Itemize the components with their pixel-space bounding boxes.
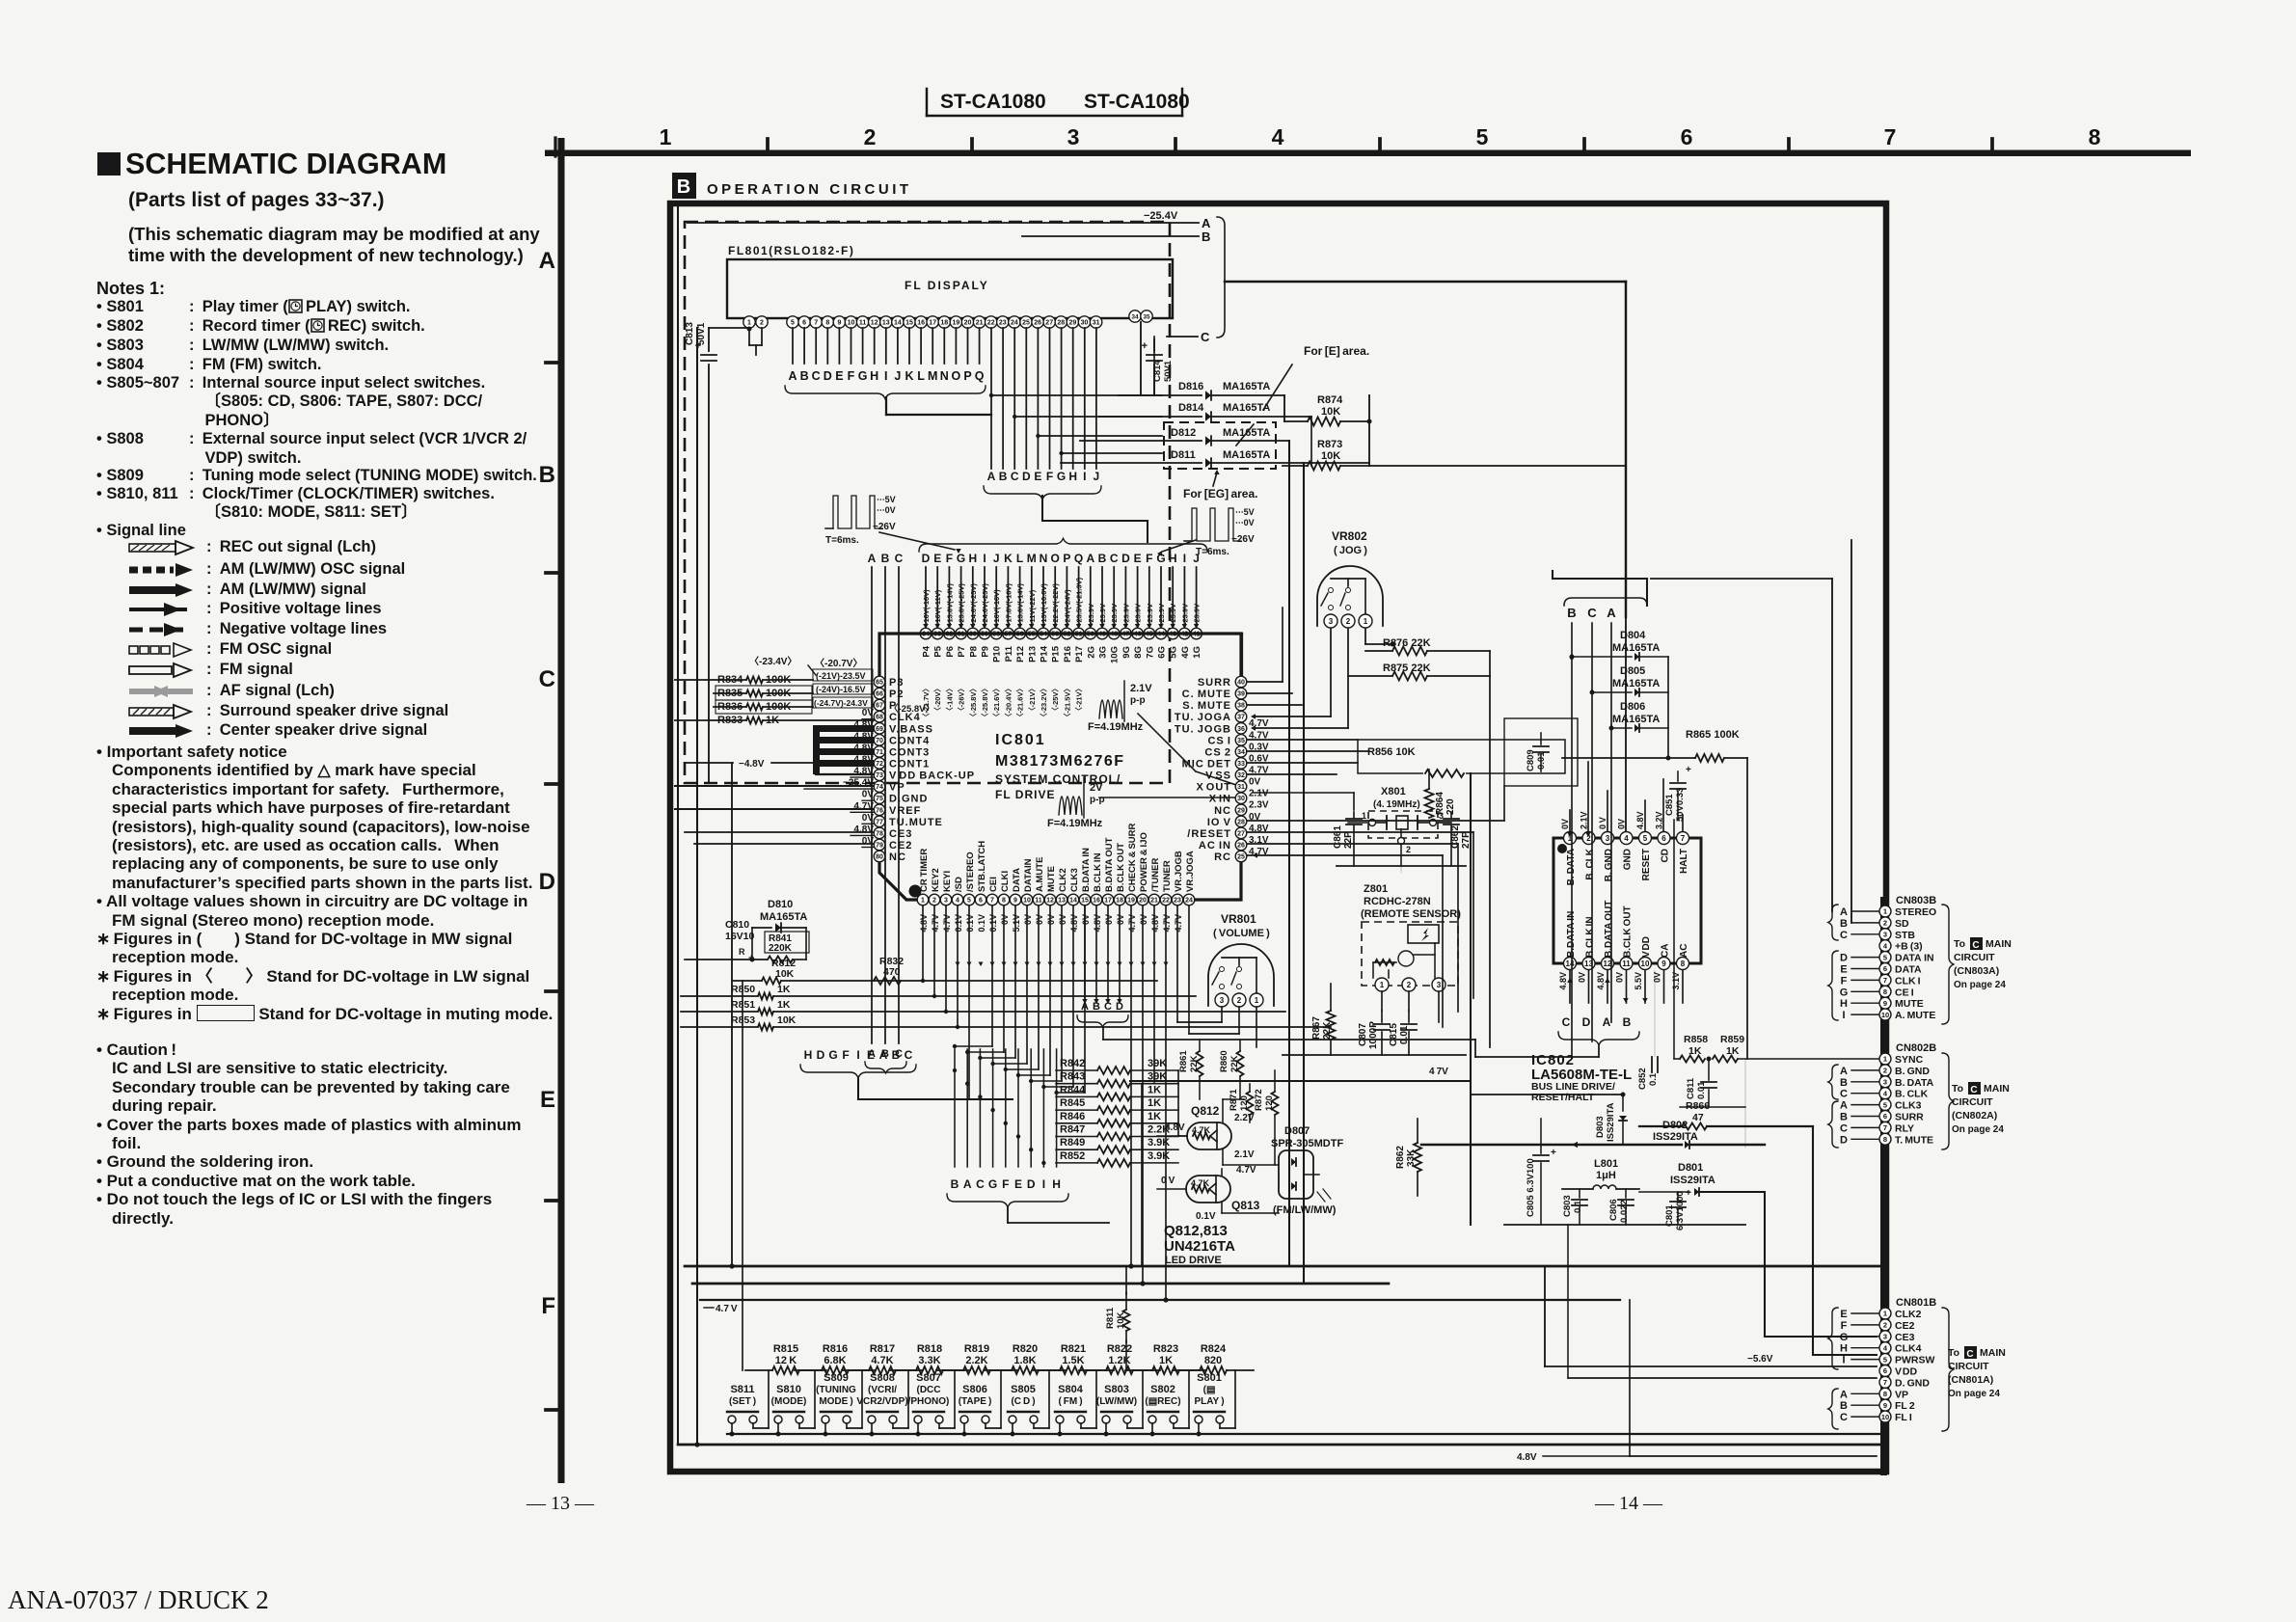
svg-text:39: 39 xyxy=(1237,691,1245,698)
svg-text:C805 6.3V100: C805 6.3V100 xyxy=(1526,1158,1536,1217)
svg-text:H: H xyxy=(968,552,977,565)
svg-text:13: 13 xyxy=(882,320,890,327)
svg-text:1: 1 xyxy=(1364,617,1368,626)
svg-text:HALT: HALT xyxy=(1679,849,1689,874)
waveform timing diagram right (5V/0V/-26V T=6ms) xyxy=(1157,507,1255,557)
svg-text:B.DATA OUT: B.DATA OUT xyxy=(1604,901,1614,958)
letters C D A B under IC802 xyxy=(1475,1015,1639,1057)
svg-text:1K: 1K xyxy=(1148,1097,1161,1109)
svg-text:-13.6V(-14V): -13.6V(-14V) xyxy=(945,583,954,625)
svg-text:14: 14 xyxy=(894,320,902,327)
svg-text:-23.9V: -23.9V xyxy=(1146,604,1154,625)
svg-text:CLK3: CLK3 xyxy=(1069,868,1080,892)
svg-text:6G: 6G xyxy=(1157,646,1168,659)
svg-text:8: 8 xyxy=(825,320,829,327)
svg-text:C. MUTE: C. MUTE xyxy=(1182,689,1231,700)
svg-text:MA165TA: MA165TA xyxy=(1223,449,1270,461)
svg-text:A: A xyxy=(1840,906,1848,918)
transistor Q812 with 4.7K base resistor xyxy=(1157,1099,1279,1165)
svg-text:J: J xyxy=(1094,470,1100,483)
svg-text:P11: P11 xyxy=(1004,645,1014,662)
svg-text:3: 3 xyxy=(1883,931,1887,939)
svg-text:22K: 22K xyxy=(1229,1055,1240,1072)
svg-text:CE3: CE3 xyxy=(1895,1332,1915,1343)
svg-text:3: 3 xyxy=(1606,834,1610,843)
IC801 right pin wires to right-side bus xyxy=(1247,608,1504,1027)
svg-text:47: 47 xyxy=(1692,1112,1704,1123)
svg-text:D: D xyxy=(1027,1177,1036,1191)
svg-text:-24V(-24V): -24V(-24V) xyxy=(1063,589,1071,625)
inductor L801 1uH xyxy=(1562,1158,1639,1189)
svg-text:C: C xyxy=(1840,1122,1848,1134)
svg-text:1: 1 xyxy=(747,320,751,327)
svg-text:⋅⋅⋅5V: ⋅⋅⋅5V xyxy=(1235,507,1255,517)
dashed box for [EG] area diodes xyxy=(1164,422,1276,469)
legend row surr xyxy=(125,702,448,720)
svg-text:22K: 22K xyxy=(1322,1021,1333,1040)
svg-text:B: B xyxy=(1623,1015,1632,1029)
svg-text:25: 25 xyxy=(1237,854,1245,861)
svg-text:R821: R821 xyxy=(1061,1343,1086,1355)
svg-text:M: M xyxy=(928,369,937,383)
svg-text:6.8K: 6.8K xyxy=(824,1355,846,1366)
svg-text:1K: 1K xyxy=(1159,1355,1173,1366)
svg-text:4.8V: 4.8V xyxy=(1558,972,1568,990)
svg-text:CONT4: CONT4 xyxy=(889,735,930,746)
svg-text:1: 1 xyxy=(921,898,925,905)
svg-text:CLK4: CLK4 xyxy=(1895,1343,1922,1355)
svg-text:0.1: 0.1 xyxy=(1648,1072,1659,1086)
svg-text:C807: C807 xyxy=(1358,1023,1368,1046)
svg-text:R844: R844 xyxy=(1060,1084,1086,1095)
svg-text:G: G xyxy=(858,369,868,383)
svg-text:UN4216TA: UN4216TA xyxy=(1164,1238,1235,1255)
svg-text:1: 1 xyxy=(1883,907,1887,916)
svg-text:B: B xyxy=(1567,606,1576,620)
svg-text:0.1: 0.1 xyxy=(1573,1200,1583,1213)
svg-text:11: 11 xyxy=(859,320,867,327)
svg-text:R864: R864 xyxy=(1435,792,1445,815)
svg-text:(MODE): (MODE) xyxy=(771,1396,807,1407)
capacitor C801 6.3V1000 xyxy=(1664,1188,1691,1230)
svg-text:0.022: 0.022 xyxy=(1619,1200,1630,1223)
capacitor C852 0.1 xyxy=(1637,970,1659,1090)
resistor R862 33K (vertical) xyxy=(1395,1119,1421,1196)
svg-text:RESET/HALT: RESET/HALT xyxy=(1531,1092,1595,1103)
svg-text:29: 29 xyxy=(1069,320,1077,327)
svg-text:D: D xyxy=(539,869,555,895)
svg-text:C: C xyxy=(905,1048,913,1062)
svg-text:D802: D802 xyxy=(1662,1120,1688,1131)
svg-text:〈-21V〉: 〈-21V〉 xyxy=(1027,685,1037,715)
svg-text:B. GND: B. GND xyxy=(1895,1066,1930,1077)
svg-text:IC801: IC801 xyxy=(995,732,1046,748)
svg-text:CONT1: CONT1 xyxy=(889,759,930,770)
legend row cen xyxy=(125,721,427,740)
top ruler bar with grid numbers 1-8 xyxy=(545,124,2191,156)
svg-text:3G: 3G xyxy=(1098,646,1109,659)
svg-text:( FM ): ( FM ) xyxy=(1058,1396,1082,1407)
svg-text:CIRCUIT: CIRCUIT xyxy=(1952,1096,1993,1108)
svg-text:7: 7 xyxy=(1883,1123,1887,1132)
svg-text:E: E xyxy=(1840,1309,1847,1320)
svg-text:C803: C803 xyxy=(1562,1195,1573,1217)
svg-text:1K: 1K xyxy=(1148,1084,1161,1095)
svg-text:31: 31 xyxy=(1093,320,1100,327)
svg-text:R845: R845 xyxy=(1060,1097,1085,1109)
svg-text:+B (3): +B (3) xyxy=(1895,941,1923,953)
svg-text:2V: 2V xyxy=(1090,782,1103,794)
legend row neg xyxy=(125,620,387,638)
svg-text:1K: 1K xyxy=(777,999,791,1011)
svg-text:C813: C813 xyxy=(685,322,695,345)
svg-text:22P: 22P xyxy=(1343,831,1354,849)
connector CN803B xyxy=(1879,895,1936,1021)
svg-text:C862: C862 xyxy=(1450,825,1461,849)
dashed boundary of FL display sub-circuit xyxy=(685,222,1170,783)
svg-text:77: 77 xyxy=(876,819,883,825)
svg-text:R872: R872 xyxy=(1254,1089,1264,1111)
svg-text:H: H xyxy=(1068,470,1077,483)
svg-text:S804: S804 xyxy=(1058,1384,1084,1395)
svg-text:MAIN: MAIN xyxy=(1980,1347,2006,1359)
svg-text:(TUNING: (TUNING xyxy=(816,1385,856,1395)
svg-text:TU.MUTE: TU.MUTE xyxy=(889,817,943,828)
svg-text:-24.6V(-23V): -24.6V(-23V) xyxy=(981,583,989,625)
svg-text:R874: R874 xyxy=(1317,394,1343,406)
svg-text:0V: 0V xyxy=(862,813,875,824)
oscillator waveform symbol 2.1V p-p F=4.19MHz xyxy=(1088,681,1246,790)
svg-text:DATA: DATA xyxy=(1895,964,1922,976)
svg-text:D816: D816 xyxy=(1178,381,1203,392)
svg-text:For [E] area.: For [E] area. xyxy=(1304,344,1369,358)
R811 joins xyxy=(1125,1266,1127,1370)
svg-text:M38173M6276F: M38173M6276F xyxy=(995,753,1125,770)
svg-text:2: 2 xyxy=(1883,919,1887,928)
svg-text:B.CLK IN: B.CLK IN xyxy=(1093,852,1103,892)
svg-text:T. MUTE: T. MUTE xyxy=(1895,1134,1933,1146)
svg-text:3: 3 xyxy=(1329,617,1334,626)
segment bus letter row D-Q A-J above IC801 xyxy=(919,538,1207,565)
svg-text:4.8V: 4.8V xyxy=(919,914,929,933)
svg-text:4.8V: 4.8V xyxy=(853,825,874,835)
svg-text:B: B xyxy=(1840,918,1848,930)
svg-text:CHECK & SURR: CHECK & SURR xyxy=(1127,823,1138,892)
svg-text:(-24V)-16.5V: (-24V)-16.5V xyxy=(816,685,866,694)
svg-text:0.1V: 0.1V xyxy=(965,914,975,933)
svg-text:On page 24: On page 24 xyxy=(1954,980,2006,990)
svg-text:E: E xyxy=(1014,1177,1022,1191)
svg-text:E: E xyxy=(1840,964,1847,976)
svg-text:R875 22K: R875 22K xyxy=(1383,662,1431,674)
resistor R856 10K xyxy=(1358,740,1565,778)
svg-text:B: B xyxy=(1840,1400,1848,1412)
svg-text:G: G xyxy=(957,552,965,565)
svg-text:28: 28 xyxy=(1237,819,1245,825)
svg-text:D: D xyxy=(1840,953,1848,964)
svg-text:NC: NC xyxy=(1214,805,1231,817)
bottom bus wires xyxy=(678,1266,1880,1445)
svg-text:26: 26 xyxy=(1034,320,1041,327)
svg-text:〈-14V〉: 〈-14V〉 xyxy=(944,685,954,715)
svg-text:2: 2 xyxy=(1407,981,1412,989)
svg-text:C852: C852 xyxy=(1637,1068,1648,1090)
svg-text:3: 3 xyxy=(1883,1333,1887,1341)
svg-text:C: C xyxy=(812,369,821,383)
svg-text:CN803B: CN803B xyxy=(1896,895,1936,906)
svg-text:33K: 33K xyxy=(1406,1149,1417,1167)
diode D811 MA165TA xyxy=(1061,449,1369,468)
svg-text:B: B xyxy=(1202,230,1210,244)
svg-text:CE I: CE I xyxy=(1895,987,1914,998)
wire label letters A B C (left feed) xyxy=(865,552,906,1073)
svg-text:8: 8 xyxy=(1681,960,1686,968)
svg-text:D: D xyxy=(1121,552,1130,565)
svg-text:18: 18 xyxy=(940,320,948,327)
wires from FL801 pins down to segment letters xyxy=(749,328,980,364)
svg-text:P10: P10 xyxy=(992,646,1003,662)
svg-text:4.7V: 4.7V xyxy=(1236,1165,1256,1176)
svg-text:I: I xyxy=(1842,1355,1845,1366)
svg-text:〈-21V〉: 〈-21V〉 xyxy=(1074,685,1084,715)
svg-text:A: A xyxy=(879,1048,888,1062)
svg-text:4.7V: 4.7V xyxy=(1162,914,1172,933)
svg-text:To: To xyxy=(1954,938,1965,950)
svg-text:RC: RC xyxy=(1214,852,1231,863)
safety notice paragraph xyxy=(96,743,554,1023)
svg-text:-23.9V: -23.9V xyxy=(1110,604,1119,625)
svg-text:-24.6V(-25V): -24.6V(-25V) xyxy=(969,583,978,625)
legend row am xyxy=(125,581,366,599)
svg-text:SD: SD xyxy=(1895,918,1909,930)
svg-text:69: 69 xyxy=(876,726,883,733)
svg-text:-23.9V: -23.9V xyxy=(1193,604,1202,625)
svg-text:D811: D811 xyxy=(1171,449,1196,461)
svg-text:5: 5 xyxy=(1883,1355,1887,1364)
svg-text:70: 70 xyxy=(876,738,883,744)
long right-side vertical runs xyxy=(1545,540,1877,1456)
svg-text:4: 4 xyxy=(1624,834,1629,843)
svg-text:-23.9V: -23.9V xyxy=(1087,604,1095,625)
svg-text:A: A xyxy=(1840,1066,1848,1077)
svg-text:4.8V: 4.8V xyxy=(1165,1122,1185,1133)
voltage callout boxes left of IC801 xyxy=(749,655,934,715)
IC801 top pin row 64..41 xyxy=(920,628,1202,639)
svg-text:A: A xyxy=(788,369,797,383)
transistor Q813 with 4.7K base resistor xyxy=(1157,1165,1279,1222)
svg-text:V SS: V SS xyxy=(1205,770,1231,782)
svg-text:26: 26 xyxy=(1237,843,1245,850)
svg-text:R819: R819 xyxy=(964,1343,989,1355)
svg-text:0.01: 0.01 xyxy=(1696,1081,1707,1099)
IC802 top pins 1-7 xyxy=(1560,811,1689,885)
svg-text:4.7K: 4.7K xyxy=(1191,1178,1210,1188)
note To C MAIN CIRCUIT (CN801A) xyxy=(1948,1346,2006,1399)
svg-text:B. CLK: B. CLK xyxy=(1585,848,1596,879)
svg-text:2: 2 xyxy=(1406,845,1411,854)
svg-text:ST-CA1080: ST-CA1080 xyxy=(940,91,1046,113)
svg-text:10K: 10K xyxy=(1116,1311,1126,1329)
svg-text:OPERATION CIRCUIT: OPERATION CIRCUIT xyxy=(707,181,912,198)
svg-text:S808: S808 xyxy=(870,1372,895,1384)
svg-text:6: 6 xyxy=(802,320,806,327)
svg-text:C: C xyxy=(1840,1089,1848,1100)
resistor stack R842-R852 xyxy=(1056,1058,1178,1167)
svg-text:0V: 0V xyxy=(1081,914,1091,925)
svg-text:X IN: X IN xyxy=(1209,794,1231,805)
svg-text:E: E xyxy=(540,1087,555,1113)
svg-text:D: D xyxy=(1840,1134,1848,1146)
svg-text:G: G xyxy=(988,1177,997,1191)
caution list xyxy=(96,1041,554,1228)
svg-text:TU. JOGB: TU. JOGB xyxy=(1175,723,1231,735)
section label B OPERATION CIRCUIT xyxy=(672,173,912,199)
svg-text:3.3K: 3.3K xyxy=(918,1355,940,1366)
svg-text:G: G xyxy=(1840,987,1849,998)
svg-text:7: 7 xyxy=(1883,1378,1887,1387)
svg-text:820: 820 xyxy=(1204,1355,1222,1366)
svg-text:0V: 0V xyxy=(862,790,875,800)
resistor R836 100K xyxy=(714,700,813,714)
svg-text:ST-CA1080: ST-CA1080 xyxy=(1084,91,1190,113)
svg-text:/TUNER: /TUNER xyxy=(1150,858,1161,893)
svg-text:68: 68 xyxy=(876,715,883,721)
svg-text:F: F xyxy=(541,1293,555,1319)
svg-text:D814: D814 xyxy=(1178,402,1204,414)
svg-text:R865 100K: R865 100K xyxy=(1686,729,1740,741)
svg-text:FL801(RSLO182-F): FL801(RSLO182-F) xyxy=(728,244,854,257)
svg-text:DATA IN: DATA IN xyxy=(1895,953,1934,964)
svg-text:4.7V: 4.7V xyxy=(942,914,952,933)
svg-text:C: C xyxy=(1587,606,1597,620)
op-amp U2 IC802 LA5608M-TE-L bus line drive xyxy=(1553,838,1701,963)
svg-text:CLKI: CLKI xyxy=(1000,871,1011,892)
svg-text:P: P xyxy=(963,369,971,383)
capacitor C810 16V10 xyxy=(685,919,755,964)
svg-text:F: F xyxy=(1002,1177,1009,1191)
svg-text:16V10: 16V10 xyxy=(725,931,755,942)
svg-text:19: 19 xyxy=(1127,898,1135,905)
svg-text:For [EG] area.: For [EG] area. xyxy=(1183,487,1258,500)
svg-text:1.5K: 1.5K xyxy=(1062,1355,1084,1366)
svg-text:MIC DET: MIC DET xyxy=(1182,759,1231,770)
svg-text:C: C xyxy=(1562,1015,1571,1029)
svg-text:34: 34 xyxy=(1131,313,1139,320)
left ruler bar with grid letters A-F xyxy=(539,138,565,1483)
svg-text:21: 21 xyxy=(976,320,984,327)
wires from IC801 bottom pins descending xyxy=(921,906,1239,1300)
svg-text:-16V(-11V): -16V(-11V) xyxy=(933,589,942,625)
svg-text:STEREO: STEREO xyxy=(1895,906,1936,918)
svg-text:IO V: IO V xyxy=(1207,817,1231,828)
svg-text:C801: C801 xyxy=(1664,1204,1675,1227)
svg-text:CLK2: CLK2 xyxy=(1058,868,1068,892)
svg-text:2.1V: 2.1V xyxy=(1130,683,1152,694)
svg-text:8G: 8G xyxy=(1133,646,1144,659)
svg-text:B: B xyxy=(999,470,1008,483)
svg-text:/PHONO): /PHONO) xyxy=(908,1396,950,1407)
svg-text:/RESET: /RESET xyxy=(1187,828,1231,840)
svg-text:(C D ): (C D ) xyxy=(1011,1396,1035,1407)
diode D807 SPR-305MDTF dual LED xyxy=(1271,1125,1343,1216)
svg-text:9: 9 xyxy=(837,320,841,327)
svg-text:CE2: CE2 xyxy=(889,840,912,852)
ground rail under Z801 xyxy=(1283,1054,1466,1056)
title box ST-CA1080 xyxy=(927,89,1190,116)
svg-text:19: 19 xyxy=(953,320,960,327)
svg-text:A: A xyxy=(1840,1100,1848,1112)
svg-text:p-p: p-p xyxy=(1130,695,1146,706)
svg-text:H: H xyxy=(1840,1343,1848,1355)
svg-text:⋅⋅⋅0V: ⋅⋅⋅0V xyxy=(877,505,896,515)
svg-text:P7: P7 xyxy=(957,646,967,658)
svg-text:O: O xyxy=(1051,552,1060,565)
svg-text:I: I xyxy=(1842,1010,1845,1021)
svg-text:3.9K: 3.9K xyxy=(1148,1150,1170,1162)
svg-text:0V: 0V xyxy=(1035,914,1044,925)
svg-text:E: E xyxy=(1134,552,1142,565)
svg-text:15: 15 xyxy=(1081,898,1089,905)
svg-text:1: 1 xyxy=(1380,981,1385,989)
svg-text:P17: P17 xyxy=(1074,646,1085,662)
svg-text:470: 470 xyxy=(883,966,901,978)
svg-text:KEYI: KEYI xyxy=(942,871,953,892)
svg-text:B. DATA: B. DATA xyxy=(1895,1077,1934,1089)
svg-text:STB.LATCH: STB.LATCH xyxy=(977,841,987,892)
svg-text:(-24.7V)-24.3V: (-24.7V)-24.3V xyxy=(814,698,868,708)
svg-text:10: 10 xyxy=(1881,1413,1889,1421)
svg-text:K: K xyxy=(905,369,913,383)
svg-text:22: 22 xyxy=(987,320,995,327)
svg-text:R843: R843 xyxy=(1060,1071,1085,1083)
svg-text:22K: 22K xyxy=(1189,1055,1200,1072)
op-amp U1 IC801 M38173M6276F system control / FL drive xyxy=(879,634,1241,900)
svg-text:B: B xyxy=(1840,1077,1848,1089)
svg-text:〈-20.4V〉: 〈-20.4V〉 xyxy=(1003,685,1013,720)
svg-text:F=4.19MHz: F=4.19MHz xyxy=(1088,721,1144,733)
svg-text:40: 40 xyxy=(1237,680,1245,687)
svg-text:Q: Q xyxy=(975,369,985,383)
svg-text:B: B xyxy=(800,369,809,383)
svg-text:B.DATA IN: B.DATA IN xyxy=(1081,848,1092,892)
svg-text:27: 27 xyxy=(1237,830,1245,837)
svg-text:0.01: 0.01 xyxy=(1399,1025,1410,1044)
svg-text:(VCRI/: (VCRI/ xyxy=(868,1385,897,1395)
svg-text:1: 1 xyxy=(660,124,672,149)
connector CN802B xyxy=(1879,1042,1936,1146)
resistor R851 1K xyxy=(681,999,1285,1015)
svg-text:1K: 1K xyxy=(777,984,791,995)
svg-text:(TAPE ): (TAPE ) xyxy=(959,1396,992,1407)
4.7V rail label right of Q812 xyxy=(1130,773,1626,1225)
IC802 bottom pins 14-8 xyxy=(1558,901,1689,990)
svg-text:J: J xyxy=(993,552,1000,565)
svg-text:VR801: VR801 xyxy=(1221,912,1256,926)
key matrix letters B A C G F E D I H xyxy=(947,1177,1109,1223)
svg-text:CEI: CEI xyxy=(988,877,999,892)
wire pin41 to SURR xyxy=(1202,634,1242,676)
svg-text:CLK I: CLK I xyxy=(1895,975,1921,987)
svg-text:〈-21.7V〉: 〈-21.7V〉 xyxy=(921,685,931,720)
svg-text:+: + xyxy=(1686,1188,1691,1199)
svg-text:38: 38 xyxy=(1237,703,1245,710)
svg-text:H: H xyxy=(1840,998,1848,1010)
key matrix letters H D G F I E A B C xyxy=(800,1048,1013,1099)
svg-text:1: 1 xyxy=(1883,1055,1887,1064)
svg-text:D: D xyxy=(1582,1015,1591,1029)
svg-text:ISS29ITA: ISS29ITA xyxy=(1606,1102,1616,1142)
svg-text:C: C xyxy=(976,1177,985,1191)
